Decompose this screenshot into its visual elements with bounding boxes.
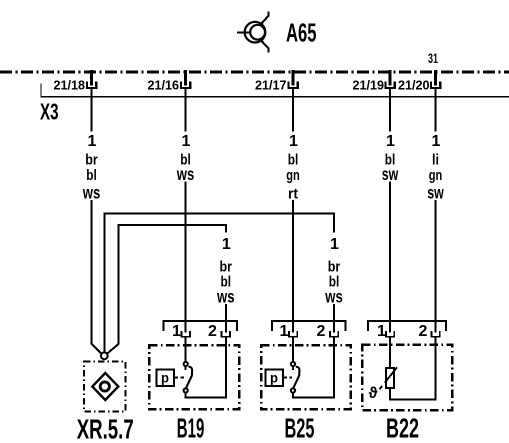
component B25 pressure switch (261, 321, 351, 409)
svg-text:B19: B19 (177, 413, 205, 443)
svg-text:1: 1 (172, 323, 181, 340)
svg-text:ϑ: ϑ (369, 385, 379, 402)
svg-text:1: 1 (182, 133, 191, 150)
pin 21/18 connector (54, 70, 97, 93)
svg-text:1: 1 (280, 323, 289, 340)
svg-text:p: p (161, 370, 169, 386)
svg-text:li: li (432, 153, 439, 169)
svg-text:1: 1 (432, 133, 441, 150)
wire 21/18 to node XR.5.7 (92, 88, 102, 354)
node 31 label (428, 51, 438, 66)
svg-text:B22: B22 (386, 413, 419, 443)
wire label 1 br bl ws (B25 pin 2 branch) (325, 236, 343, 307)
branch wire node to B25 pin 2 (104, 213, 334, 352)
pin 21/20 connector (398, 70, 440, 93)
svg-text:br: br (85, 153, 98, 169)
svg-text:ws: ws (82, 183, 100, 203)
pin 21/16 connector (148, 70, 191, 93)
svg-text:XR.5.7: XR.5.7 (77, 414, 134, 443)
wire label 1 bl gn rt (21/17) (286, 133, 300, 203)
branch wire node to B19 pin 2 (108, 225, 226, 353)
wire label 1 br bl ws (B19 pin 2 branch) (216, 236, 234, 307)
component B19 pressure switch (149, 321, 239, 409)
svg-text:1: 1 (386, 133, 395, 150)
splice node above XR.5.7 (101, 352, 108, 359)
svg-text:2: 2 (419, 323, 428, 340)
svg-text:gn: gn (286, 168, 300, 184)
svg-text:1: 1 (222, 236, 231, 253)
wire 21/19 to B22 pin 1 (389, 88, 391, 332)
svg-text:1: 1 (330, 236, 339, 253)
svg-text:p: p (270, 370, 278, 386)
wire 21/20 to B22 pin 2 (435, 88, 437, 332)
svg-text:1: 1 (289, 133, 298, 150)
svg-text:21/16: 21/16 (148, 78, 180, 93)
svg-text:br: br (328, 260, 341, 276)
svg-text:ws: ws (325, 287, 343, 307)
svg-text:bl: bl (288, 153, 299, 169)
svg-text:2: 2 (317, 323, 326, 340)
svg-text:sw: sw (427, 183, 444, 203)
control unit A65 symbol (237, 12, 269, 53)
svg-text:ws: ws (216, 287, 234, 307)
pin 21/19 connector (353, 70, 395, 93)
A65 label (286, 17, 317, 47)
wire 21/16 to B19 pin 1 (185, 88, 187, 332)
svg-text:21/19: 21/19 (353, 78, 385, 93)
B19 label (177, 413, 205, 443)
XR.5.7 label (77, 414, 134, 443)
svg-text:21/20: 21/20 (398, 78, 430, 93)
B25 label (285, 413, 315, 443)
svg-text:sw: sw (382, 164, 399, 184)
svg-text:A65: A65 (286, 17, 317, 47)
ground connector XR.5.7 (84, 362, 126, 412)
svg-text:rt: rt (288, 187, 298, 203)
X3 label (40, 98, 59, 124)
svg-text:2: 2 (208, 323, 217, 340)
wire label 1 bl sw (21/19) (382, 133, 399, 184)
pin 21/17 connector (255, 70, 298, 93)
svg-text:31: 31 (428, 51, 438, 66)
svg-text:ws: ws (176, 164, 194, 184)
svg-text:B25: B25 (285, 413, 315, 443)
svg-text:br: br (220, 260, 233, 276)
wire label 1 br bl ws (21/18) (82, 133, 100, 203)
svg-text:1: 1 (377, 323, 386, 340)
svg-text:1: 1 (88, 133, 97, 150)
connector strip X3 (41, 84, 509, 97)
svg-text:21/17: 21/17 (255, 78, 287, 93)
B22 label (386, 413, 419, 443)
wire label 1 li gn sw (21/20) (427, 133, 444, 203)
bus line 31 (dash-dot rail) (0, 71, 509, 74)
svg-text:X3: X3 (40, 98, 59, 124)
component B22 temperature sensor (362, 321, 452, 410)
wire label 1 bl ws (21/16) (176, 133, 194, 184)
svg-text:21/18: 21/18 (54, 78, 86, 93)
wire 21/17 to B25 pin 1 (292, 88, 294, 332)
